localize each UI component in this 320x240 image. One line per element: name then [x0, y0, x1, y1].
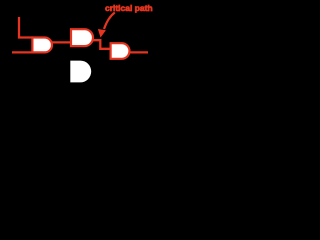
and-gate U1 — [32, 38, 52, 53]
wire: U1 output to U2 input — [51, 41, 72, 43]
wire: input B horizontal into AND1 bottom input — [12, 51, 33, 53]
wire: input A vertical+horizontal into AND1 top input — [19, 17, 33, 38]
and-gate U4 (unhighlighted, white fill only) — [70, 61, 91, 83]
wire: U3 output — [130, 51, 149, 53]
arrow: from label to critical wire — [104, 13, 115, 30]
and-gate U3 — [111, 43, 130, 59]
wire: U2 output, corner down, into U3 input — [93, 40, 112, 49]
background — [0, 0, 160, 90]
arrowhead — [98, 29, 106, 38]
circuit schematic: critical path illustration — [0, 0, 160, 90]
and-gate U2 — [71, 29, 93, 46]
svg-text:critical path: critical path — [105, 3, 153, 13]
